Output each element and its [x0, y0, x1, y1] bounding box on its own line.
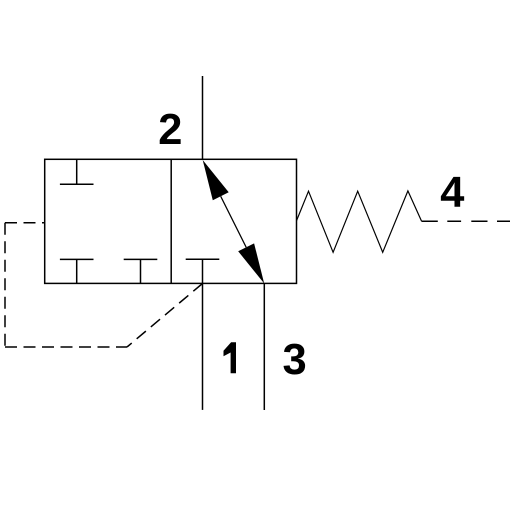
flow arrow head upper (tip at port 2)	[203, 160, 229, 200]
valve body outer rectangle	[45, 159, 297, 283]
port 3 line	[263, 283, 265, 410]
blocked port symbol bottom-left 1 (stem)	[76, 259, 78, 283]
pilot line left: diagonal up to port 1 junction (dashed)	[127, 284, 203, 348]
blocked port symbol bottom-right (stem)	[202, 259, 204, 283]
blocked port symbol bottom-left 1 (bar)	[60, 258, 94, 260]
pilot line left: horizontal bottom run (dashed)	[5, 346, 127, 348]
blocked port symbol bottom-left 2 (bar)	[124, 258, 158, 260]
flow arrow head lower (tip at port 3)	[238, 243, 264, 283]
blocked port symbol bottom-right (bar)	[186, 258, 220, 260]
pilot line right (dashed)	[422, 220, 510, 222]
port 2 line	[202, 76, 204, 159]
port 1 line	[202, 283, 204, 410]
blocked port symbol bottom-left 2 (stem)	[140, 259, 142, 283]
flow arrow shaft	[221, 196, 247, 247]
valve body divider between positions	[170, 159, 172, 283]
blocked port symbol top-left (stem)	[76, 159, 78, 184]
label 4	[441, 177, 464, 207]
label 2	[160, 114, 181, 144]
blocked port symbol top-left (bar)	[60, 183, 94, 185]
pilot line left: vertical down (dashed)	[4, 223, 6, 347]
spring (return)	[297, 191, 422, 252]
label 3	[284, 344, 306, 375]
pilot line left: horizontal from valve to corner (dashed)	[5, 222, 45, 224]
label 1	[224, 342, 237, 373]
